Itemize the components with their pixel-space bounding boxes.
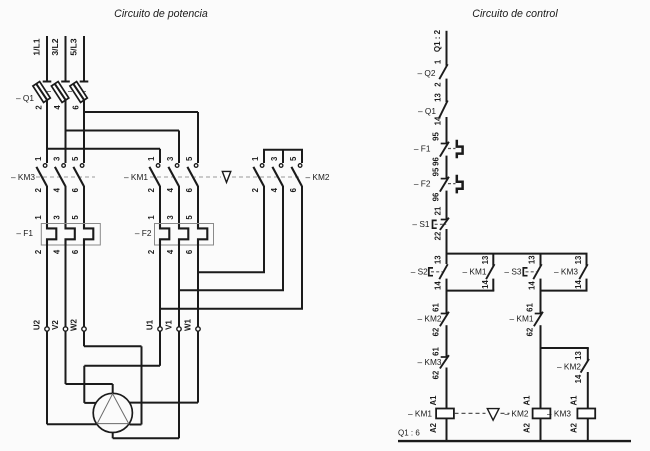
svg-text:14: 14	[434, 116, 443, 125]
linkage dashed to KM2	[232, 176, 302, 178]
svg-text:1: 1	[34, 215, 43, 220]
wire F2 output 6 to terminal W1	[197, 246, 199, 327]
svg-text:– KM3: – KM3	[418, 357, 442, 367]
svg-text:A2: A2	[523, 422, 532, 433]
wire Q1 pole6 branch to KM1 pole5	[83, 112, 198, 163]
wire KM2 NC to KM3 NC	[446, 325, 448, 357]
contact F1 NC (95-96) with trip element	[432, 132, 463, 166]
svg-text:2: 2	[434, 82, 443, 87]
svg-text:V2: V2	[51, 320, 60, 330]
svg-text:13: 13	[574, 255, 583, 264]
svg-text:14: 14	[434, 281, 443, 290]
svg-text:14: 14	[481, 280, 490, 289]
wire S3 rung to KM1 NC	[540, 279, 542, 314]
thermal overload relay F2	[155, 224, 214, 246]
thermal overload relay F1	[41, 224, 100, 246]
contact F2 NC (95-96) with trip element	[432, 167, 463, 201]
mechanical interlock triangle (control)	[487, 409, 499, 421]
wire KM1 to F2	[159, 186, 161, 224]
wire branch to KM2 aux	[540, 348, 589, 361]
contactor KM3 main contact pole 3-4	[53, 156, 66, 192]
svg-text:– F1: – F1	[16, 228, 33, 238]
svg-text:5: 5	[71, 215, 80, 220]
svg-text:2: 2	[34, 249, 43, 254]
svg-text:96: 96	[432, 192, 441, 201]
svg-text:Circuito de control: Circuito de control	[472, 8, 558, 20]
wire W2 to motor delta corner right	[84, 331, 142, 425]
svg-text:13: 13	[574, 351, 583, 360]
svg-text:– KM3: – KM3	[11, 172, 35, 182]
svg-text:A1: A1	[569, 395, 578, 406]
node terminal U1	[146, 319, 163, 331]
svg-text:6: 6	[289, 187, 298, 192]
svg-text:62: 62	[432, 327, 441, 336]
wire U1 to motor left	[84, 331, 160, 403]
svg-text:3: 3	[270, 156, 279, 161]
svg-text:Q1 : 6: Q1 : 6	[398, 429, 420, 438]
svg-text:A1: A1	[429, 395, 438, 406]
svg-text:14: 14	[528, 281, 537, 290]
contactor KM1 main contact pole 1-2	[147, 156, 160, 192]
contactor KM2 main contact pole 5-6	[289, 156, 302, 192]
svg-text:2: 2	[251, 187, 260, 192]
wire Q1 pole6 to KM3 pole5	[83, 100, 85, 164]
svg-text:– S2: – S2	[411, 267, 428, 277]
svg-text:– KM3: – KM3	[554, 267, 578, 277]
contactor KM2 main contact pole 3-4	[270, 156, 283, 192]
svg-text:95: 95	[432, 167, 441, 176]
wire coil KM1 to bottom rail	[446, 418, 448, 441]
wire coil KM2 to bottom rail	[540, 418, 542, 441]
wire top branch bus	[446, 253, 588, 255]
contactor KM2 main contact pole 1-2	[251, 156, 264, 192]
wire KM3 to F1	[65, 186, 67, 224]
svg-text:95: 95	[432, 132, 441, 141]
svg-text:– KM2: – KM2	[418, 314, 442, 324]
svg-text:– F1: – F1	[414, 144, 431, 154]
wire Q2 to Q1	[446, 79, 448, 102]
contact Q2 (1-2)	[434, 59, 448, 87]
svg-text:1: 1	[147, 156, 156, 161]
svg-text:61: 61	[432, 347, 441, 356]
svg-text:2: 2	[34, 187, 43, 192]
svg-text:5/L3: 5/L3	[69, 38, 79, 55]
svg-text:5: 5	[289, 156, 298, 161]
wire S2/KM1 bottom bus	[446, 279, 495, 291]
contactor KM1 main contact pole 3-4	[166, 156, 179, 192]
pushbutton S3 NO (13-14)	[523, 255, 541, 290]
svg-text:6: 6	[185, 249, 194, 254]
svg-text:3: 3	[53, 156, 62, 161]
svg-text:5: 5	[185, 215, 194, 220]
svg-text:1: 1	[147, 215, 156, 220]
svg-text:– Q1: – Q1	[16, 93, 34, 103]
wire KM3 to F1	[46, 186, 48, 224]
pushbutton S1 NC (21-22)	[433, 206, 449, 240]
svg-text:4: 4	[166, 249, 175, 254]
contactor KM1 main contact pole 5-6	[185, 156, 198, 192]
node 5/L3 phase terminal	[69, 36, 89, 82]
svg-text:4: 4	[53, 249, 62, 254]
svg-text:Circuito de potencia: Circuito de potencia	[114, 8, 208, 20]
contact KM1 aux NO (13-14) seal-in	[481, 255, 495, 289]
wire Q1 pole4 to KM3 pole3	[65, 100, 67, 164]
svg-text:1/L1: 1/L1	[32, 38, 42, 55]
node terminal V1	[165, 320, 182, 332]
svg-text:6: 6	[72, 105, 81, 110]
svg-text:2: 2	[147, 187, 156, 192]
svg-text:2: 2	[35, 105, 44, 110]
coil KM2 (A1-A2)	[523, 395, 551, 433]
wire V2 to motor top	[66, 331, 113, 394]
svg-text:13: 13	[528, 255, 537, 264]
wire KM1 NC down to coil KM2	[540, 325, 542, 408]
wire KM1 to F2	[197, 186, 199, 224]
svg-text:– KM1: – KM1	[124, 172, 148, 182]
svg-text:– F2: – F2	[135, 228, 152, 238]
svg-text:U2: U2	[33, 319, 42, 330]
wire F1 outputs to terminals U2 V2 W2	[47, 246, 84, 327]
node terminal W1	[184, 318, 201, 331]
wire KM1 to F2	[178, 186, 180, 224]
pushbutton S2 NO (13-14)	[429, 255, 448, 290]
svg-text:– KM1: – KM1	[510, 314, 534, 324]
motor M (delta winding)	[93, 393, 132, 432]
wire U2 to motor delta corner left	[47, 331, 97, 424]
svg-text:3/L2: 3/L2	[50, 38, 60, 55]
mechanical interlock triangle (power)	[222, 171, 231, 182]
svg-text:W1: W1	[184, 318, 193, 331]
svg-text:1: 1	[434, 59, 443, 64]
node 3/L2 phase terminal	[50, 36, 70, 82]
wire KM2 aux to coil KM3	[587, 372, 589, 409]
wire main line top	[446, 31, 448, 66]
wire S3 rung stub down	[540, 254, 542, 266]
svg-text:4: 4	[166, 187, 175, 192]
svg-text:22: 22	[434, 231, 443, 240]
svg-text:5: 5	[185, 156, 194, 161]
coil KM1 (A1-A2)	[429, 395, 454, 433]
breaker Q1 pole 1	[33, 82, 50, 103]
svg-text:– KM1: – KM1	[463, 267, 487, 277]
contact KM3 aux NO (13-14) seal-in	[574, 255, 588, 289]
svg-text:21: 21	[434, 206, 443, 215]
svg-text:3: 3	[166, 215, 175, 220]
wire S1 to branch bus	[446, 229, 448, 264]
svg-text:– KM1: – KM1	[408, 409, 432, 419]
svg-text:– KM3: – KM3	[547, 409, 571, 419]
svg-text:– Q1: – Q1	[418, 106, 436, 116]
linkage dashed KM1 to KM2 with interlock	[150, 176, 221, 178]
wire KM2 pole2 to W1 line	[198, 186, 265, 273]
wire KM2 pole6 to U1 line	[160, 186, 303, 309]
wire Q1 pole2 branch to KM1 pole1	[46, 149, 160, 163]
svg-text:2: 2	[147, 249, 156, 254]
contact Q1 (13-14)	[434, 93, 448, 126]
wire S3/KM3 bottom bus	[540, 279, 588, 291]
svg-text:5: 5	[71, 156, 80, 161]
node terminal V2	[51, 320, 68, 332]
wire F1 to F2	[446, 156, 448, 179]
wire F2 to S1	[446, 191, 448, 220]
svg-text:62: 62	[432, 370, 441, 379]
svg-text:1: 1	[251, 156, 260, 161]
svg-text:– F2: – F2	[414, 179, 431, 189]
wire F2 output 2 to terminal U1	[159, 246, 161, 327]
contact KM2 aux NO (13-14)	[574, 351, 589, 384]
coil KM3 (A1-A2)	[569, 395, 595, 433]
svg-text:A2: A2	[429, 422, 438, 433]
F1 terminal numbers	[34, 215, 80, 255]
svg-text:– S3: – S3	[504, 267, 521, 277]
contact KM3 NC (61-62)	[432, 347, 449, 380]
svg-text:– KM2: – KM2	[306, 172, 330, 182]
wire Q1 pole4 branch to KM1 pole3	[65, 131, 180, 164]
mechanical interlock dashed to KM2	[501, 412, 510, 414]
svg-text:Q1 : 2: Q1 : 2	[433, 29, 442, 52]
svg-text:– KM2: – KM2	[557, 362, 581, 372]
node 1/L1 phase terminal	[32, 36, 52, 82]
node terminal U2	[33, 319, 50, 331]
svg-text:6: 6	[71, 187, 80, 192]
wire main to KM2 NC	[446, 279, 448, 314]
wire KM2 star-point bus	[263, 150, 303, 163]
svg-text:1: 1	[34, 156, 43, 161]
svg-text:62: 62	[526, 327, 535, 336]
svg-text:13: 13	[481, 255, 490, 264]
svg-text:– KM2: – KM2	[505, 409, 529, 419]
svg-text:14: 14	[574, 374, 583, 383]
contactor KM3 main contact pole 5-6	[71, 156, 84, 192]
breaker Q1 pole 2	[51, 82, 68, 103]
F2 terminal numbers	[147, 215, 194, 255]
svg-text:A2: A2	[569, 422, 578, 433]
svg-text:– Q2: – Q2	[418, 68, 436, 78]
svg-text:96: 96	[432, 157, 441, 166]
breaker Q1 pole numbers 2 4 6	[35, 105, 81, 110]
wire Q1 pole2 to KM3 pole1	[46, 100, 48, 164]
svg-text:61: 61	[526, 303, 535, 312]
svg-text:V1: V1	[165, 320, 174, 330]
contactor KM3 linkage dashed	[36, 176, 95, 178]
wire F2 output 4 to terminal V1	[178, 246, 180, 327]
svg-text:61: 61	[432, 303, 441, 312]
wire Q1 to F1	[446, 117, 448, 144]
svg-text:– S1: – S1	[412, 219, 429, 229]
wire V1 to motor bottom	[113, 331, 179, 438]
node terminal W2	[70, 318, 87, 331]
wire coil KM3 to bottom rail	[587, 418, 589, 441]
svg-text:4: 4	[53, 187, 62, 192]
svg-text:U1: U1	[146, 319, 155, 330]
contact KM1 NC (61-62)	[526, 303, 543, 337]
wire KM3 aux stub down	[586, 254, 588, 266]
wire W1 to motor right	[130, 331, 198, 403]
svg-text:6: 6	[71, 249, 80, 254]
mechanical interlock dashed KM1-KM2	[455, 412, 486, 414]
svg-text:4: 4	[270, 187, 279, 192]
svg-text:13: 13	[434, 255, 443, 264]
svg-text:3: 3	[166, 156, 175, 161]
svg-text:4: 4	[53, 105, 62, 110]
svg-text:W2: W2	[70, 318, 79, 331]
wire bottom rail Q1:6	[398, 440, 631, 442]
svg-text:13: 13	[434, 93, 443, 102]
breaker Q1 pole 3	[70, 82, 87, 103]
wire KM3 NC to coil KM1	[446, 368, 448, 409]
svg-text:A1: A1	[523, 395, 532, 406]
svg-text:6: 6	[185, 187, 194, 192]
svg-text:14: 14	[574, 280, 583, 289]
wire KM1 aux stub down	[492, 254, 494, 266]
wire KM2 pole4 to V1 line	[179, 186, 284, 291]
contactor KM3 main contact pole 1-2	[34, 156, 47, 192]
breaker Q1 linkage dashed	[40, 91, 88, 93]
svg-text:3: 3	[53, 215, 62, 220]
wire KM3 to F1	[83, 186, 85, 224]
contact KM2 NC (61-62)	[432, 303, 449, 337]
